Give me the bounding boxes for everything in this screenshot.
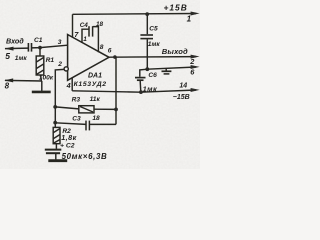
pin 8 wire	[93, 27, 99, 53]
common line to terminal 6	[147, 65, 199, 69]
input terminal arrow (Вход)	[5, 47, 29, 51]
wire C3 to feedback vertical	[90, 123, 116, 125]
wire to C3	[55, 123, 85, 125]
wire C1 to pin 3	[32, 45, 68, 48]
wire C2 to ground	[55, 154, 57, 159]
capacitor C3	[86, 121, 89, 131]
terminal arrow 8	[4, 78, 42, 82]
wire to R3	[55, 107, 79, 109]
capacitor C4	[89, 26, 93, 36]
node: R3 left junction	[53, 105, 57, 109]
wire feedback right vertical	[115, 57, 117, 124]
ground (chassis) on common line	[162, 68, 172, 74]
node: C6 bottom junction	[139, 90, 143, 94]
wire R3 to feedback vertical	[94, 108, 116, 110]
capacitor C1	[28, 43, 31, 52]
node: output feedback tap	[113, 55, 117, 59]
node: R3 right junction	[114, 108, 118, 112]
output wire from pin 6	[108, 55, 200, 59]
wire R1 bottom lead	[40, 75, 43, 81]
node: C5 top junction	[145, 12, 149, 16]
+15V rail	[73, 12, 200, 16]
ground (chassis) under R1	[32, 91, 51, 94]
paper grain overlay	[0, 0, 200, 169]
-15V rail	[72, 88, 199, 92]
node: C3 left junction	[53, 121, 57, 125]
pin 2 inverting input circle	[64, 67, 68, 71]
node: C1/R1 junction	[38, 46, 42, 50]
capacitor C5	[140, 14, 153, 69]
pin 4 wire (V-)	[71, 78, 73, 91]
capacitor C2 (electrolytic)	[45, 150, 62, 154]
resistor R3	[79, 106, 94, 113]
wire pin 2 to feedback node	[55, 69, 64, 127]
wire to ground under R1	[41, 81, 43, 91]
resistor R1	[36, 56, 44, 75]
node: C5 bottom junction	[145, 67, 149, 71]
ground (chassis) under C2	[48, 159, 67, 162]
wire R1 top lead	[39, 48, 41, 56]
op-amp DA1 triangle	[68, 35, 109, 81]
pin 1 wire	[82, 29, 89, 43]
wire R2 to C2	[55, 144, 57, 149]
capacitor C6	[135, 69, 147, 92]
resistor R2	[53, 127, 60, 143]
pin 7 wire (V+)	[72, 14, 74, 37]
